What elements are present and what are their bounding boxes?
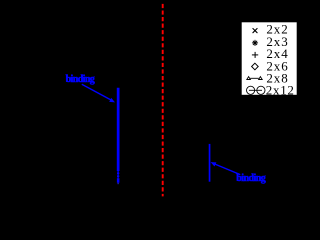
legend sample row5: line with open triangles	[247, 77, 262, 80]
legend sample row6: line with open circles	[247, 86, 266, 94]
legend marker row3: plus	[252, 52, 258, 58]
right blue level line	[209, 144, 211, 182]
legend marker row1: cross x	[253, 29, 257, 33]
left blue spectrum level blob 1	[117, 173, 119, 175]
svg-text:2x12: 2x12	[266, 83, 295, 98]
legend box (white, opaque)	[242, 22, 297, 95]
right annotation arrowhead	[211, 162, 217, 166]
right annotation arrow shaft	[214, 164, 241, 175]
left annotation arrowhead	[109, 98, 115, 103]
left annotation arrow shaft	[82, 84, 112, 100]
legend marker row4: open diamond	[252, 63, 259, 70]
left blue spectrum level blob 2	[117, 176, 119, 178]
left blue spectrum faint tail	[118, 183, 119, 185]
legend marker row2: asterisk	[252, 40, 257, 45]
svg-text:binding: binding	[66, 74, 95, 85]
left blue spectrum bar (thick)	[117, 88, 120, 171]
left blue spectrum thin lower segment	[117, 171, 119, 178]
red dashed threshold line	[162, 4, 164, 197]
svg-text:binding: binding	[236, 173, 266, 184]
left blue spectrum bottom blob	[117, 178, 120, 183]
